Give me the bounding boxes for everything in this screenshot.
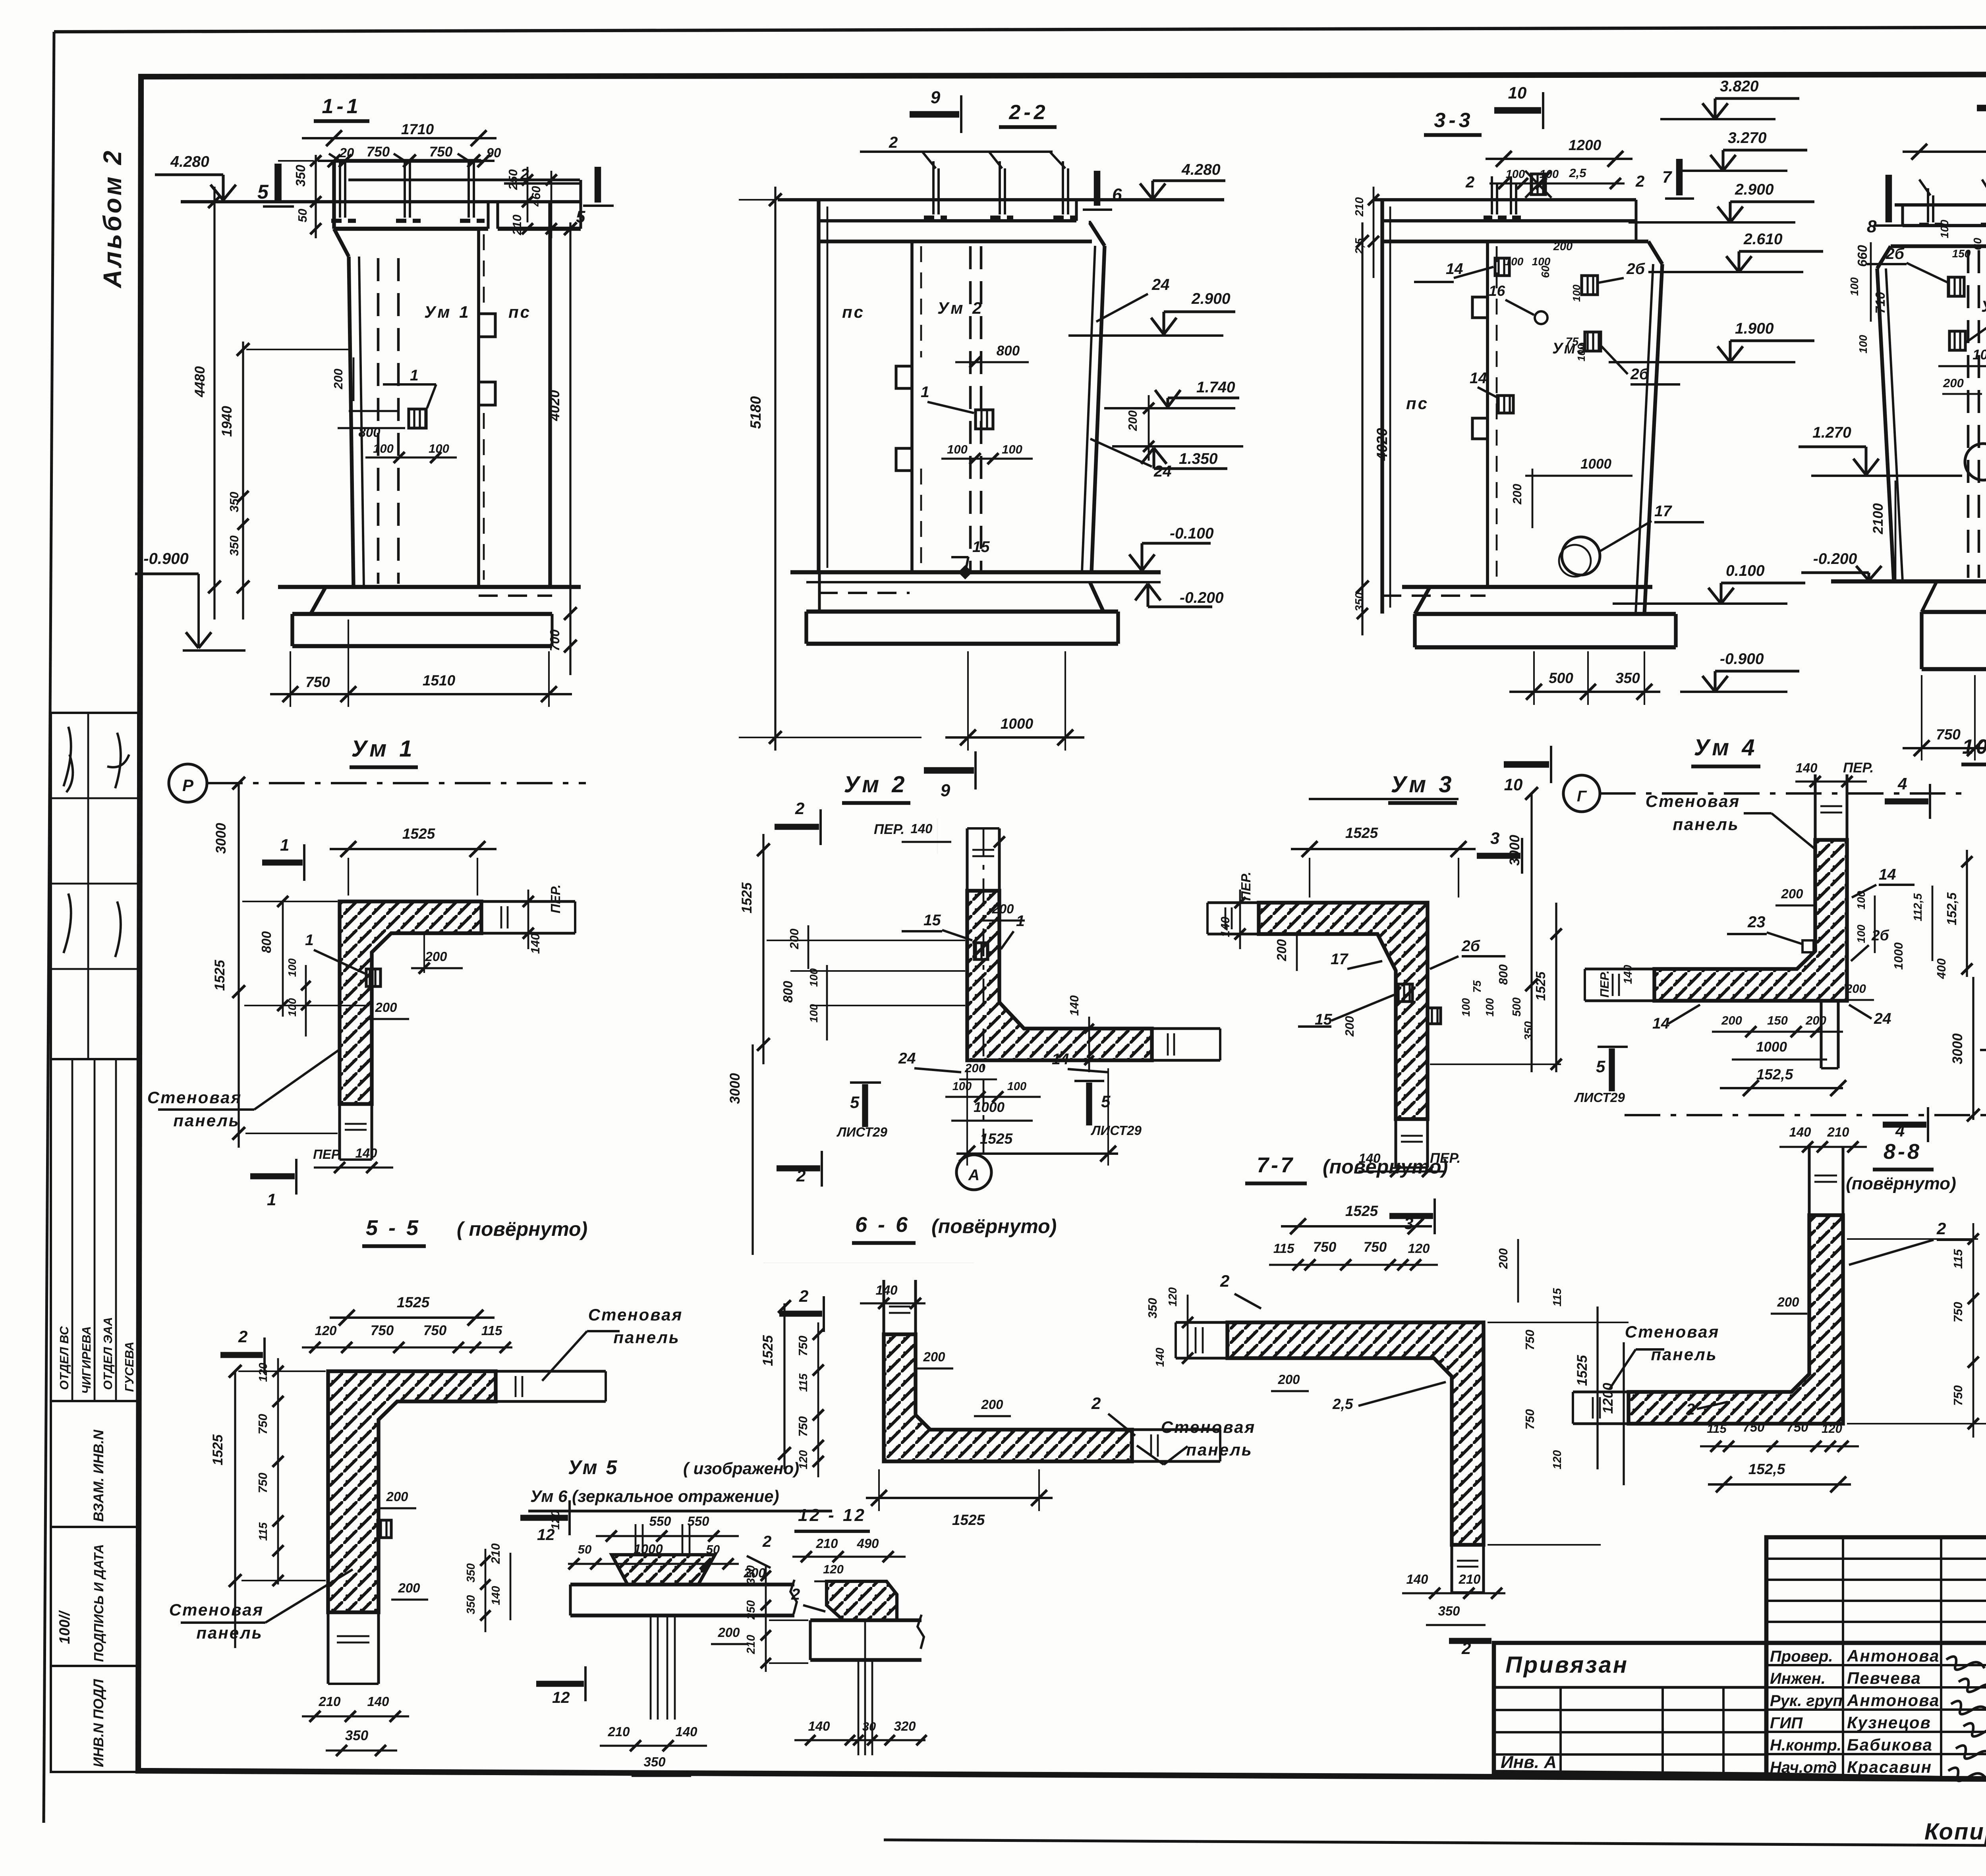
svg-text:-0.200: -0.200 xyxy=(1813,550,1857,567)
svg-text:ПЕР: ПЕР xyxy=(313,1147,340,1162)
svg-text:3.820: 3.820 xyxy=(1720,78,1759,95)
svg-text:120: 120 xyxy=(549,1511,562,1530)
svg-text:200: 200 xyxy=(398,1581,420,1595)
svg-text:ПЕР.: ПЕР. xyxy=(874,822,904,837)
svg-text:Рук. груп: Рук. груп xyxy=(1770,1692,1843,1710)
5-5 panel right xyxy=(496,1370,606,1372)
svg-text:750: 750 xyxy=(1951,1302,1965,1322)
svg-text:Ум3: Ум3 xyxy=(1552,340,1587,357)
svg-text:200: 200 xyxy=(1805,1013,1826,1027)
svg-text:Стеновая: Стеновая xyxy=(147,1088,242,1107)
svg-text:24: 24 xyxy=(1874,1010,1891,1027)
svg-text:800: 800 xyxy=(259,931,274,953)
Ум4 L wall hatched (corner bottom-right) xyxy=(1654,840,1847,1001)
Ум2 L wall hatched xyxy=(967,891,1152,1060)
svg-text:50: 50 xyxy=(578,1542,591,1556)
svg-text:Нач.отд: Нач.отд xyxy=(1770,1759,1837,1776)
svg-text:2: 2 xyxy=(1635,173,1644,190)
svg-text:140: 140 xyxy=(1406,1572,1428,1586)
6-6 panel right xyxy=(1132,1428,1220,1431)
svg-text:12 - 12: 12 - 12 xyxy=(798,1505,866,1525)
Ум4 panel left xyxy=(1585,967,1654,970)
svg-text:14: 14 xyxy=(1052,1051,1069,1068)
svg-text:Ум 2: Ум 2 xyxy=(937,299,984,317)
svg-text:(повёрнуто): (повёрнуто) xyxy=(1846,1174,1956,1193)
svg-text:120: 120 xyxy=(257,1363,270,1382)
svg-text:1525: 1525 xyxy=(397,1294,430,1310)
svg-text:750: 750 xyxy=(1951,1385,1965,1406)
svg-text:9: 9 xyxy=(941,781,950,800)
svg-text:140: 140 xyxy=(490,1586,502,1605)
svg-text:200: 200 xyxy=(1845,982,1866,996)
svg-text:2: 2 xyxy=(889,134,898,151)
svg-text:100: 100 xyxy=(1505,255,1524,268)
4-4 dowels xyxy=(1927,195,1929,222)
svg-text:100: 100 xyxy=(1938,220,1951,238)
4-4 circle 23 xyxy=(1965,444,1986,480)
svg-text:200: 200 xyxy=(717,1625,740,1640)
svg-text:750: 750 xyxy=(256,1414,270,1434)
svg-text:210: 210 xyxy=(318,1694,341,1709)
3-3 right flange chamfer xyxy=(1634,200,1637,241)
svg-text:2: 2 xyxy=(1936,1219,1946,1238)
svg-text:750: 750 xyxy=(796,1416,810,1437)
svg-text:350: 350 xyxy=(293,164,308,187)
svg-text:1525: 1525 xyxy=(760,1335,776,1366)
svg-text:200: 200 xyxy=(1781,886,1803,901)
svg-text:750: 750 xyxy=(1786,1420,1808,1434)
svg-text:Певчева: Певчева xyxy=(1847,1669,1921,1687)
5-5 wall bottom panel xyxy=(326,1612,329,1684)
svg-text:2: 2 xyxy=(795,799,804,818)
svg-text:17: 17 xyxy=(1331,951,1349,968)
svg-text:200: 200 xyxy=(1721,1013,1742,1027)
2-2 dowels xyxy=(932,168,935,214)
svg-text:( повёрнуто): ( повёрнуто) xyxy=(457,1218,587,1240)
svg-text:200: 200 xyxy=(981,1397,1003,1412)
svg-text:5 - 5: 5 - 5 xyxy=(366,1216,421,1240)
svg-text:1-1: 1-1 xyxy=(322,95,361,118)
3-3 anchors on joint xyxy=(1495,258,1509,276)
svg-text:1525: 1525 xyxy=(1533,971,1548,1001)
svg-text:3-3: 3-3 xyxy=(1434,109,1473,132)
svg-text:Антонова: Антонова xyxy=(1847,1646,1940,1665)
3-3 big circle 17 xyxy=(1562,537,1600,575)
svg-text:1525: 1525 xyxy=(1345,825,1379,841)
svg-text:(повёрнуто): (повёрнуто) xyxy=(931,1215,1057,1237)
svg-text:ЛИСТ29: ЛИСТ29 xyxy=(1574,1090,1625,1105)
svg-text:5: 5 xyxy=(1596,1057,1605,1076)
svg-text:Альбом 2: Альбом 2 xyxy=(98,149,127,289)
svg-text:100: 100 xyxy=(1460,998,1472,1017)
svg-text:Кузнецов: Кузнецов xyxy=(1847,1713,1931,1732)
svg-text:120: 120 xyxy=(1167,1287,1179,1307)
svg-text:2,5: 2,5 xyxy=(1332,1396,1354,1412)
8-8 L wall hatched (corner bottom-left going left) xyxy=(1629,1215,1843,1424)
1-1 dowels with hooks xyxy=(339,161,341,218)
svg-text:Инжен.: Инжен. xyxy=(1770,1670,1826,1687)
svg-text:2.900: 2.900 xyxy=(1191,290,1231,307)
svg-text:750: 750 xyxy=(423,1323,447,1338)
svg-text:6: 6 xyxy=(1112,185,1122,205)
svg-text:75: 75 xyxy=(1471,980,1483,993)
svg-text:750: 750 xyxy=(1743,1420,1765,1434)
svg-text:200: 200 xyxy=(425,949,447,964)
svg-text:140: 140 xyxy=(528,933,542,954)
svg-text:1200: 1200 xyxy=(1600,1383,1616,1414)
svg-text:15: 15 xyxy=(972,538,990,556)
svg-text:30: 30 xyxy=(862,1720,876,1733)
svg-text:1.350: 1.350 xyxy=(1179,450,1218,467)
svg-text:панель: панель xyxy=(196,1623,263,1642)
svg-text:100: 100 xyxy=(1855,924,1867,943)
title block: revision table xyxy=(1766,1537,1986,1643)
svg-text:1940: 1940 xyxy=(219,406,235,437)
svg-text:750: 750 xyxy=(796,1336,810,1356)
Ум5/6 slab xyxy=(570,1583,794,1586)
svg-text:200: 200 xyxy=(1343,1016,1356,1037)
svg-text:Ум 6 (зеркальное отражение): Ум 6 (зеркальное отражение) xyxy=(530,1487,779,1505)
Ум1 panel continuation bottom xyxy=(338,1104,341,1160)
svg-text:Ум 4: Ум 4 xyxy=(1981,298,1986,315)
1-1 floor slab xyxy=(278,585,581,589)
3-3 floor + footing xyxy=(1402,585,1652,589)
svg-text:210: 210 xyxy=(510,214,524,235)
svg-text:200: 200 xyxy=(386,1489,408,1504)
svg-text:100: 100 xyxy=(808,1004,820,1023)
svg-text:5180: 5180 xyxy=(748,396,764,429)
5-5 L wall hatched (corner top-left) xyxy=(328,1371,496,1612)
svg-text:60: 60 xyxy=(1539,265,1551,278)
svg-text:1000: 1000 xyxy=(1001,716,1034,732)
svg-text:100: 100 xyxy=(952,1080,972,1093)
svg-text:Копировал: Копировал xyxy=(1924,1819,1986,1845)
1-1 joint with notches xyxy=(477,229,480,587)
svg-text:1: 1 xyxy=(305,932,314,949)
1-1 column flange xyxy=(334,159,481,162)
svg-text:1: 1 xyxy=(267,1190,276,1209)
svg-text:1000: 1000 xyxy=(974,1100,1005,1115)
svg-text:120: 120 xyxy=(1408,1241,1430,1256)
svg-text:200: 200 xyxy=(743,1565,766,1580)
svg-text:800: 800 xyxy=(997,343,1020,359)
2-2 hidden dashes center xyxy=(969,246,972,570)
2-2 joint with notches xyxy=(910,241,914,572)
svg-text:24: 24 xyxy=(1151,276,1170,293)
svg-text:100: 100 xyxy=(1007,1080,1026,1093)
svg-text:ГИП: ГИП xyxy=(1770,1714,1803,1732)
svg-text:3000: 3000 xyxy=(727,1073,743,1104)
svg-text:ИНВ.N ПОДЛ: ИНВ.N ПОДЛ xyxy=(91,1679,106,1767)
svg-text:140: 140 xyxy=(875,1283,898,1297)
svg-text:200: 200 xyxy=(1496,1248,1510,1269)
svg-text:120: 120 xyxy=(1822,1422,1842,1436)
8-8 panel top xyxy=(1808,1148,1810,1215)
svg-text:пс: пс xyxy=(842,303,865,321)
3-3 anchor at top w/ cross xyxy=(1531,174,1546,195)
svg-text:( изображено): ( изображено) xyxy=(683,1459,799,1478)
2-2 panel slab xyxy=(778,198,1224,201)
svg-text:1525: 1525 xyxy=(1345,1203,1379,1219)
6-6 L wall hatched (corner bottom-left) xyxy=(884,1334,1132,1461)
svg-text:1: 1 xyxy=(921,384,929,401)
svg-text:7-7: 7-7 xyxy=(1257,1153,1295,1177)
svg-text:350: 350 xyxy=(643,1754,666,1769)
svg-text:115: 115 xyxy=(1273,1241,1294,1256)
svg-text:140: 140 xyxy=(910,821,933,836)
svg-text:24: 24 xyxy=(1153,463,1172,480)
svg-text:60: 60 xyxy=(1971,237,1984,250)
svg-text:-0.900: -0.900 xyxy=(1720,650,1764,668)
7-7 panel left xyxy=(1176,1321,1227,1324)
svg-text:660: 660 xyxy=(1855,245,1870,267)
svg-text:ПОДПИСЬ И ДАТА: ПОДПИСЬ И ДАТА xyxy=(91,1544,106,1662)
svg-text:2б: 2б xyxy=(1626,261,1645,278)
1-1 footing xyxy=(292,612,552,616)
svg-text:24: 24 xyxy=(898,1050,916,1067)
svg-text:1000: 1000 xyxy=(1580,456,1611,472)
svg-text:750: 750 xyxy=(256,1473,270,1493)
svg-text:350: 350 xyxy=(465,1595,477,1614)
12-12 hatched wall stub + slab xyxy=(827,1581,897,1620)
svg-text:320: 320 xyxy=(894,1719,916,1733)
svg-text:А: А xyxy=(968,1167,979,1184)
4-4 panel slab xyxy=(1895,203,1986,207)
svg-text:140: 140 xyxy=(1622,965,1634,984)
svg-text:210: 210 xyxy=(1827,1125,1849,1139)
svg-text:Н.контр.: Н.контр. xyxy=(1770,1737,1841,1754)
svg-text:Ум 1: Ум 1 xyxy=(351,736,415,762)
svg-text:ВЗАМ. ИНВ.N: ВЗАМ. ИНВ.N xyxy=(91,1430,106,1522)
svg-text:2б: 2б xyxy=(1461,938,1480,955)
svg-text:Стеновая: Стеновая xyxy=(588,1305,683,1324)
svg-text:1000: 1000 xyxy=(1756,1039,1787,1055)
svg-text:7: 7 xyxy=(1662,168,1672,186)
svg-text:140: 140 xyxy=(367,1694,389,1709)
svg-text:ПЕР.: ПЕР. xyxy=(1843,760,1874,776)
svg-text:10: 10 xyxy=(1504,775,1523,794)
svg-text:8-8: 8-8 xyxy=(1884,1140,1922,1164)
svg-text:10: 10 xyxy=(1508,83,1527,102)
svg-text:550: 550 xyxy=(649,1514,671,1529)
svg-text:Провер.: Провер. xyxy=(1770,1648,1833,1665)
svg-text:ЛИСТ29: ЛИСТ29 xyxy=(837,1125,887,1139)
svg-text:200: 200 xyxy=(1510,484,1524,505)
svg-text:200: 200 xyxy=(1274,939,1289,961)
svg-text:5: 5 xyxy=(850,1093,860,1112)
svg-text:1525: 1525 xyxy=(210,1434,226,1465)
svg-text:250: 250 xyxy=(506,169,520,190)
svg-text:140: 140 xyxy=(355,1146,377,1160)
svg-text:120: 120 xyxy=(1551,1450,1564,1469)
svg-text:12: 12 xyxy=(552,1689,570,1706)
svg-text:1710: 1710 xyxy=(401,121,434,137)
svg-text:140: 140 xyxy=(1067,995,1081,1016)
svg-text:4: 4 xyxy=(1897,774,1907,793)
svg-text:750: 750 xyxy=(1523,1409,1537,1430)
svg-text:550: 550 xyxy=(687,1514,709,1529)
4-4 left flange chamfer + taper xyxy=(1901,205,1904,226)
svg-text:панель: панель xyxy=(1673,815,1739,834)
svg-text:2,5: 2,5 xyxy=(1569,166,1586,180)
svg-text:200: 200 xyxy=(923,1349,945,1364)
svg-text:350: 350 xyxy=(465,1563,477,1583)
svg-text:200: 200 xyxy=(991,901,1014,916)
svg-text:панель: панель xyxy=(173,1111,240,1130)
svg-text:-0.200: -0.200 xyxy=(1180,589,1224,606)
svg-text:1525: 1525 xyxy=(1575,1355,1590,1386)
svg-text:ОТДЕЛ ВС: ОТДЕЛ ВС xyxy=(57,1326,71,1390)
svg-text:350: 350 xyxy=(227,535,241,556)
svg-text:Ум 3: Ум 3 xyxy=(1391,772,1455,797)
4-4 floor + footing xyxy=(1831,579,1986,584)
svg-text:2-2: 2-2 xyxy=(1008,101,1048,124)
7-7 L wall hatched (corner top-right) xyxy=(1227,1322,1484,1545)
svg-text:200: 200 xyxy=(331,369,345,390)
svg-text:750: 750 xyxy=(1523,1330,1537,1350)
svg-text:100: 100 xyxy=(1848,277,1860,296)
svg-text:350: 350 xyxy=(1353,593,1366,612)
svg-text:14: 14 xyxy=(1879,866,1896,883)
svg-text:100//: 100// xyxy=(56,1610,73,1644)
2-2 right flange end xyxy=(1075,200,1078,221)
3-3 joint with notches xyxy=(1486,241,1489,587)
4-4 hidden dashed center xyxy=(1967,250,1970,578)
svg-text:Ум 4: Ум 4 xyxy=(1694,735,1758,760)
1-1 column shaft xyxy=(334,229,349,257)
svg-text:3000: 3000 xyxy=(213,823,229,854)
svg-text:200: 200 xyxy=(1277,1372,1300,1387)
svg-text:ПЕР.: ПЕР. xyxy=(1598,971,1611,998)
svg-text:4.280: 4.280 xyxy=(170,153,209,170)
4-4 centerline anchors 2б xyxy=(1948,277,1964,296)
Ум2 panel right xyxy=(1152,1027,1220,1030)
svg-text:4480: 4480 xyxy=(192,366,208,398)
svg-text:5: 5 xyxy=(576,207,585,226)
svg-text:210: 210 xyxy=(489,1543,502,1564)
Ум4 panel top xyxy=(1814,774,1816,840)
svg-text:200: 200 xyxy=(1126,410,1140,431)
Ум1 panel continuation right xyxy=(481,900,575,903)
svg-text:0.100: 0.100 xyxy=(1726,562,1765,579)
svg-text:1510: 1510 xyxy=(423,672,456,689)
svg-text:460: 460 xyxy=(529,186,543,207)
svg-text:3000: 3000 xyxy=(1950,1033,1965,1064)
svg-text:2100: 2100 xyxy=(1870,503,1886,535)
svg-text:Ум 5: Ум 5 xyxy=(568,1456,618,1478)
svg-text:2.610: 2.610 xyxy=(1743,231,1783,248)
svg-text:пс: пс xyxy=(1406,394,1429,413)
svg-text:Инв. А: Инв. А xyxy=(1501,1752,1557,1772)
svg-text:2б: 2б xyxy=(1630,366,1649,383)
svg-text:1.270: 1.270 xyxy=(1812,424,1851,441)
svg-text:15: 15 xyxy=(923,912,941,929)
svg-text:100: 100 xyxy=(1484,998,1496,1017)
svg-text:100: 100 xyxy=(286,958,298,977)
svg-text:Антонова: Антонова xyxy=(1847,1691,1940,1710)
svg-text:2: 2 xyxy=(238,1327,247,1346)
Ум5/6 dowels + hatched trapezoid xyxy=(635,1524,637,1555)
svg-text:14: 14 xyxy=(1470,370,1487,387)
svg-text:490: 490 xyxy=(856,1536,879,1551)
svg-text:ЧИГИРЕВА: ЧИГИРЕВА xyxy=(79,1326,93,1394)
svg-text:200: 200 xyxy=(1943,376,1964,390)
svg-text:1.900: 1.900 xyxy=(1735,320,1774,337)
svg-text:140: 140 xyxy=(1795,760,1818,775)
svg-text:750: 750 xyxy=(367,144,390,160)
3-3 panel slab xyxy=(1374,198,1636,201)
svg-text:100: 100 xyxy=(286,998,298,1017)
svg-text:2: 2 xyxy=(1686,1401,1695,1418)
svg-text:100: 100 xyxy=(947,442,968,456)
svg-text:112,5: 112,5 xyxy=(1912,893,1924,921)
svg-text:200: 200 xyxy=(1777,1295,1799,1309)
svg-text:1525: 1525 xyxy=(980,1131,1013,1147)
svg-text:140: 140 xyxy=(675,1724,697,1739)
svg-text:152,5: 152,5 xyxy=(1748,1461,1786,1477)
svg-text:4020: 4020 xyxy=(1374,428,1390,461)
svg-text:750: 750 xyxy=(1364,1239,1387,1255)
svg-text:Ум 1: Ум 1 xyxy=(424,303,471,321)
6-6 panel top xyxy=(882,1280,885,1334)
svg-text:1525: 1525 xyxy=(212,960,228,991)
svg-text:1.740: 1.740 xyxy=(1196,379,1235,396)
svg-text:2: 2 xyxy=(1091,1394,1101,1413)
svg-text:панель: панель xyxy=(613,1328,680,1347)
svg-text:50: 50 xyxy=(296,209,309,222)
Ум4 panel below xyxy=(1820,1001,1822,1068)
svg-text:ОТДЕЛ ЭАА: ОТДЕЛ ЭАА xyxy=(101,1317,115,1390)
svg-text:Бабикова: Бабикова xyxy=(1847,1735,1933,1754)
svg-text:17: 17 xyxy=(1654,503,1673,520)
svg-text:100: 100 xyxy=(1571,284,1582,302)
svg-text:23: 23 xyxy=(1747,913,1766,931)
svg-text:800: 800 xyxy=(780,980,795,1003)
svg-text:1: 1 xyxy=(410,367,419,384)
svg-text:Привязан: Привязан xyxy=(1505,1652,1629,1678)
svg-text:750: 750 xyxy=(429,144,453,160)
svg-text:9: 9 xyxy=(931,88,941,107)
svg-text:Стеновая: Стеновая xyxy=(1646,792,1740,811)
svg-text:2: 2 xyxy=(799,1287,808,1305)
svg-text:100: 100 xyxy=(1002,442,1022,456)
svg-text:-0.100: -0.100 xyxy=(1170,525,1214,542)
svg-text:3.270: 3.270 xyxy=(1728,129,1767,147)
svg-text:3: 3 xyxy=(1490,829,1499,847)
svg-text:6 - 6: 6 - 6 xyxy=(855,1213,910,1237)
svg-text:750: 750 xyxy=(1313,1239,1337,1255)
svg-text:350: 350 xyxy=(345,1728,369,1743)
svg-text:1200: 1200 xyxy=(1569,137,1602,153)
svg-text:750: 750 xyxy=(371,1323,394,1338)
svg-text:350: 350 xyxy=(1615,670,1640,686)
svg-text:Г: Г xyxy=(1577,788,1587,805)
svg-text:10 - 10: 10 - 10 xyxy=(1962,735,1986,759)
svg-text:400: 400 xyxy=(1934,958,1948,979)
svg-text:2б: 2б xyxy=(1871,927,1889,944)
Ум2 axis А bubble xyxy=(956,1155,991,1190)
svg-text:2: 2 xyxy=(1220,1272,1229,1290)
svg-text:140: 140 xyxy=(1154,1348,1167,1367)
svg-text:5: 5 xyxy=(257,181,269,203)
svg-text:152,5: 152,5 xyxy=(1944,892,1959,925)
svg-text:16: 16 xyxy=(1489,283,1505,299)
svg-text:750: 750 xyxy=(1936,726,1961,743)
svg-text:Стеновая: Стеновая xyxy=(1161,1418,1256,1436)
title block: signature rows xyxy=(1766,1643,1986,1780)
3-3 dowels xyxy=(1491,183,1493,214)
svg-text:Красавин: Красавин xyxy=(1847,1758,1932,1776)
